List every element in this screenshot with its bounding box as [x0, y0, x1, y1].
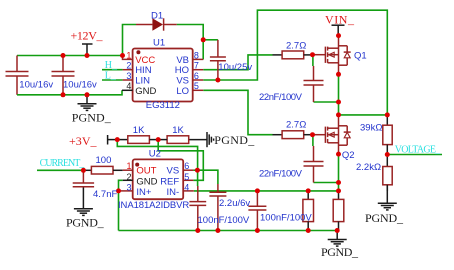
svg-text:GND: GND: [136, 176, 157, 187]
svg-text:1K: 1K: [133, 125, 145, 136]
svg-text:CURRENT_: CURRENT_: [40, 158, 86, 169]
svg-text:LO: LO: [176, 86, 189, 97]
svg-text:1K: 1K: [172, 125, 184, 136]
svg-text:1: 1: [126, 50, 131, 60]
svg-text:EG3112: EG3112: [146, 100, 180, 111]
svg-text:4: 4: [126, 81, 131, 91]
svg-text:IN-: IN-: [167, 187, 180, 198]
svg-text:4.7nF: 4.7nF: [93, 189, 117, 200]
svg-text:+3V_: +3V_: [69, 134, 98, 148]
svg-text:100nF/100V: 100nF/100V: [260, 213, 312, 224]
svg-text:2.7Ω: 2.7Ω: [286, 120, 306, 131]
svg-text:U1: U1: [153, 38, 165, 49]
svg-text:5: 5: [194, 81, 199, 91]
svg-text:100: 100: [96, 155, 112, 166]
svg-text:100nF/100V: 100nF/100V: [198, 215, 250, 226]
svg-text:8: 8: [194, 50, 199, 60]
svg-text:3: 3: [126, 71, 131, 81]
svg-text:VOLTAGE_: VOLTAGE_: [395, 145, 442, 156]
svg-text:22nF/100V: 22nF/100V: [259, 92, 303, 103]
svg-text:INA181A2IDBVR: INA181A2IDBVR: [118, 200, 189, 211]
svg-text:2: 2: [126, 172, 131, 182]
svg-text:IN+: IN+: [136, 187, 152, 198]
svg-text:6: 6: [194, 71, 199, 81]
svg-text:10u/16v: 10u/16v: [19, 79, 53, 90]
svg-text:PGND_: PGND_: [365, 211, 404, 225]
svg-text:3: 3: [126, 183, 131, 193]
svg-text:6: 6: [184, 161, 189, 171]
svg-text:7: 7: [194, 61, 199, 71]
svg-text:D1: D1: [151, 10, 163, 21]
svg-text:2.2u/6v: 2.2u/6v: [219, 198, 250, 209]
svg-text:2.2kΩ: 2.2kΩ: [356, 162, 381, 173]
svg-text:5: 5: [184, 172, 189, 182]
svg-text:22nF/100V: 22nF/100V: [259, 169, 303, 180]
svg-text:10u/16v: 10u/16v: [63, 79, 97, 90]
svg-text:Q2: Q2: [342, 150, 355, 161]
svg-text:PGND_: PGND_: [214, 133, 255, 147]
svg-text:U2: U2: [149, 148, 161, 159]
svg-text:1: 1: [126, 161, 131, 171]
svg-text:L_: L_: [105, 71, 117, 82]
svg-text:4: 4: [184, 183, 189, 193]
svg-text:OUT: OUT: [136, 166, 156, 177]
svg-text:2: 2: [126, 61, 131, 71]
svg-text:39kΩ: 39kΩ: [360, 123, 382, 134]
svg-text:PGND_: PGND_: [66, 215, 105, 229]
svg-text:Q1: Q1: [354, 50, 367, 61]
svg-text:VS: VS: [167, 166, 180, 177]
svg-text:10u/25v: 10u/25v: [218, 62, 252, 73]
svg-text:REF: REF: [160, 176, 179, 187]
svg-text:GND: GND: [135, 86, 156, 97]
svg-text:+12V_: +12V_: [71, 29, 104, 43]
svg-text:PGND_: PGND_: [321, 245, 359, 259]
svg-text:PGND_: PGND_: [72, 110, 112, 124]
svg-text:2.7Ω: 2.7Ω: [286, 41, 306, 52]
svg-text:VIN_: VIN_: [325, 13, 355, 27]
